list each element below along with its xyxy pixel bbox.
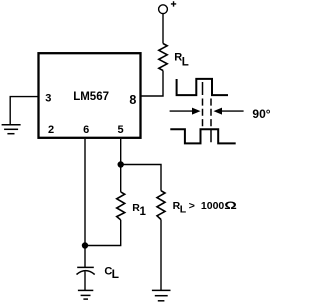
svg-text:5: 5 (118, 124, 124, 136)
label RL (174, 51, 189, 68)
label R1 (132, 202, 146, 218)
node junction pin5/RL load (118, 161, 124, 167)
resistor RL top (159, 44, 167, 71)
label RL > 1000 ohm (173, 200, 238, 216)
svg-text:1000: 1000 (201, 200, 225, 212)
IC U1 LM567 tone decoder (39, 53, 141, 138)
capacitor CL (77, 267, 95, 274)
wire pin5 down to R1 (120, 139, 122, 192)
arrow right (214, 108, 244, 115)
resistor R1 (117, 192, 125, 220)
svg-text:6: 6 (83, 124, 89, 136)
wire CL to ground (84, 272, 86, 291)
arrow left (170, 108, 201, 115)
svg-text:3: 3 (45, 92, 51, 104)
svg-text:LM567: LM567 (73, 91, 109, 103)
waveform bottom square wave (170, 129, 235, 143)
wire R1 bottom to junction (85, 220, 121, 246)
wire RL load to ground (160, 220, 162, 291)
svg-text:2: 2 (48, 124, 54, 136)
svg-text:L: L (182, 56, 189, 68)
dash line left (202, 82, 204, 126)
svg-text:8: 8 (129, 93, 136, 107)
svg-text:L: L (180, 204, 187, 216)
ground under CL (78, 290, 93, 299)
label CL (104, 266, 119, 281)
wire V+ to RL (162, 14, 164, 44)
waveform top square wave (177, 79, 228, 95)
ground left (2, 125, 21, 134)
svg-text:90°: 90° (252, 107, 270, 121)
svg-text:L: L (112, 267, 119, 281)
dash line right (210, 99, 212, 143)
wire pin6 down to CL (84, 139, 86, 267)
wire junction to RL load (121, 165, 161, 191)
wire pin3 to ground (10, 97, 38, 125)
node V+ terminal (159, 5, 168, 14)
svg-text:1: 1 (140, 206, 147, 218)
V+ plus sign (171, 1, 176, 6)
svg-text:>: > (189, 200, 195, 212)
resistor RL load (157, 191, 165, 220)
ground under RL load (152, 290, 171, 300)
wire RL to pin 8 (140, 71, 163, 97)
node junction pin6/R1/CL (82, 242, 88, 248)
svg-text:Ω: Ω (224, 200, 237, 212)
